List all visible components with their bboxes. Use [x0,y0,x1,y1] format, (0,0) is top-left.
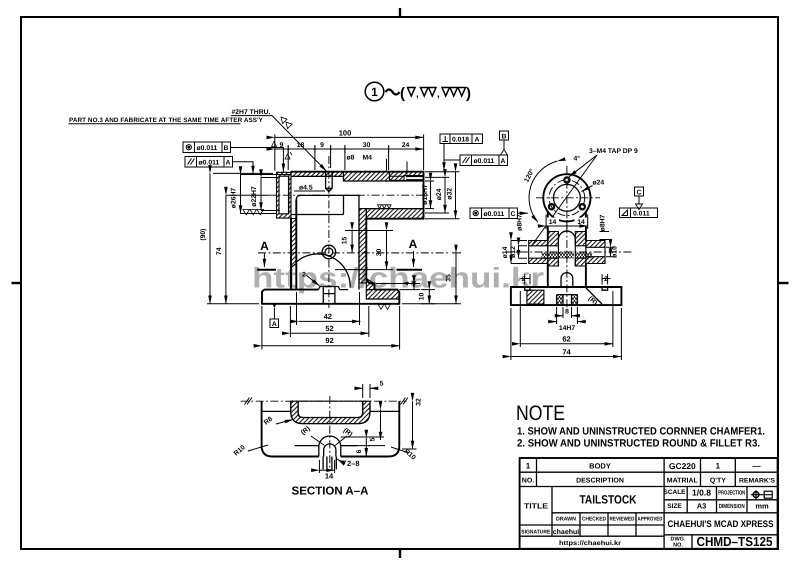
cap inner bore line [288,176,290,214]
svg-text:ø22H7: ø22H7 [251,186,258,207]
svg-text:DRAWN: DRAWN [556,517,576,523]
svg-text:chaehui: chaehui [553,528,580,536]
centerline circle horizontal [536,197,600,199]
svg-text:C: C [511,211,516,218]
svg-text:14: 14 [549,219,557,226]
cap piece left (part no.3) [277,172,292,218]
base right hatch [366,290,399,299]
svg-text:0.011: 0.011 [633,211,650,218]
svg-text:https://chaehui.kr: https://chaehui.kr [559,540,622,547]
drill hole 4.5 [326,172,333,192]
svg-text:ø18H7: ø18H7 [422,184,429,205]
title block [520,458,778,549]
thread zigzag right [575,253,592,259]
slot 14H7 [557,295,578,306]
svg-text:REVIEWED: REVIEWED [610,517,635,523]
right pin boss [586,241,605,264]
border tick top [399,8,401,17]
frame pos B [183,142,231,153]
svg-text:A3: A3 [697,502,707,511]
finish marks under cap [243,210,263,215]
dim o24 [444,177,446,213]
svg-text:NO.: NO. [522,478,535,485]
svg-text:(: ( [400,85,405,102]
svg-text:2. SHOW AND UNINSTRUCTED ROUND: 2. SHOW AND UNINSTRUCTED ROUND & FILLET … [517,438,760,450]
svg-text:4°: 4° [574,156,581,163]
svg-text:GC220: GC220 [669,461,696,471]
dim 30 [386,231,388,270]
svg-text:3–M4 TAP DP 9: 3–M4 TAP DP 9 [589,148,638,155]
border tick bottom [399,549,401,558]
svg-text:ø12: ø12 [510,246,517,258]
svg-text:ø24: ø24 [593,180,605,187]
dim 5 top [355,387,363,389]
dim o32 [455,172,457,219]
break marks [245,398,409,405]
svg-text:mm: mm [755,502,769,511]
cavity top fillet [296,195,359,289]
svg-text:35: 35 [446,274,453,282]
svg-text:C: C [637,189,642,196]
bar top thin wall hatch [291,172,344,177]
svg-text:1: 1 [716,462,721,471]
extension lines top [275,135,424,171]
svg-text:6: 6 [356,449,363,453]
column blocks hatched [548,232,559,267]
svg-text:14H7: 14H7 [559,325,575,332]
column right wall [366,219,374,290]
svg-text:74: 74 [216,247,223,255]
tap hole right [579,204,585,210]
dim 62 [520,343,613,345]
svg-text:30: 30 [363,142,371,149]
leader triangles [281,117,287,124]
tap hole left [548,204,554,210]
svg-text:M4: M4 [363,155,373,162]
svg-text:1: 1 [526,462,531,471]
svg-text:A: A [260,239,269,253]
svg-text:NOTE: NOTE [516,402,565,425]
column sides lower [548,264,586,288]
svg-text:PART NO.3 AND FABRICATE AT THE: PART NO.3 AND FABRICATE AT THE SAME TIME… [69,117,264,124]
svg-text:TITLE: TITLE [524,502,548,511]
svg-text:APPROVED: APPROVED [638,517,663,523]
dome center [319,436,341,457]
datum C flag [635,187,644,196]
datum A flag [273,304,277,308]
dim o26H7 [240,175,242,214]
circle o18H7 [554,184,581,211]
bar outline [291,172,424,219]
centerline vertical [566,166,568,312]
svg-text:—: — [753,462,761,471]
dim 10 [428,290,430,304]
svg-text:74: 74 [562,347,571,356]
svg-text:ø32: ø32 [446,188,453,200]
base boss [318,287,348,290]
dim o12 [518,246,520,258]
svg-text:(90): (90) [200,229,207,241]
svg-text:SECTION A–A: SECTION A–A [292,486,369,498]
dim (90) [209,173,211,303]
svg-text:52: 52 [325,324,333,333]
hole circle [322,245,336,259]
svg-text:SIGNATURE: SIGNATURE [521,530,550,536]
dim 14 14 [546,218,559,226]
column right wall hatch [359,209,366,283]
dim 8 [555,315,563,317]
base outline [262,290,399,304]
column sides below circle [548,212,586,241]
svg-text:5: 5 [370,437,377,441]
svg-text:1/0.8: 1/0.8 [692,488,711,498]
M4 tap hole right end [390,176,424,181]
svg-text:2: 2 [302,272,306,279]
svg-text:2–8: 2–8 [347,459,360,468]
border tick left [12,282,22,284]
svg-text:ø26H7: ø26H7 [231,188,238,209]
svg-text:DESCRIPTION: DESCRIPTION [576,478,624,485]
dim 74 [511,356,622,358]
column outer left wall [291,200,296,290]
svg-text:ø0.011: ø0.011 [197,145,218,152]
slot bottom arch [561,273,573,287]
web dome arc [296,254,350,288]
slot through [323,457,336,470]
dim 14 [319,469,334,471]
frame ang 0.011 right [620,208,658,218]
base steps [525,287,608,290]
centerline hole axis horizontal [258,252,448,254]
svg-text:): ) [466,85,471,102]
svg-text:NO.: NO. [673,543,683,549]
frame par A left [185,157,233,168]
svg-text:ø14: ø14 [502,246,509,258]
svg-text:PROJECTION: PROJECTION [718,490,745,497]
svg-text:14: 14 [577,219,585,226]
finish flag marks [272,142,277,147]
svg-text:SCALE: SCALE [663,489,686,496]
svg-text:CHECKED: CHECKED [582,517,606,523]
svg-text:8: 8 [565,309,569,316]
svg-text:ø24: ø24 [436,188,443,200]
thread zigzag left [542,253,559,259]
svg-text:Q'TY: Q'TY [710,478,726,485]
svg-text:DIMENSION: DIMENSION [719,503,745,510]
projection symbol [751,490,772,499]
centerline pin axis [505,251,634,253]
svg-text:A: A [475,137,480,144]
dim o18H7 [430,181,432,209]
dim 35 [455,253,457,304]
svg-text:24: 24 [402,142,410,149]
svg-text:ø8H7: ø8H7 [600,214,607,231]
svg-text:32: 32 [416,398,423,406]
svg-text:,: , [416,89,419,100]
svg-text:10: 10 [419,293,426,301]
svg-text:A: A [272,321,277,328]
base side view [511,287,622,305]
svg-text:62: 62 [562,335,570,344]
dim 92 [262,345,400,347]
dim 100 [275,136,424,138]
svg-text:CHMD–TS125: CHMD–TS125 [697,534,773,549]
dim 14H7 [548,321,557,323]
dim row2 ticks [275,148,424,150]
svg-text:42: 42 [324,312,332,321]
dim 4 [413,284,415,290]
120 arc [529,161,557,222]
dim 2 right [603,275,610,283]
svg-text:1: 1 [371,85,378,99]
slot dome [558,231,575,266]
svg-text:ø0.011: ø0.011 [484,211,505,218]
U channel hatched [291,401,370,423]
base diagonal R [586,288,602,304]
centerline horizontal [241,400,407,402]
bar bottom wall hatch [366,209,423,219]
datum B flag with par frame [500,131,509,140]
svg-text:BODY: BODY [589,462,611,471]
svg-text:B: B [224,145,229,152]
svg-text:14: 14 [325,472,334,481]
dim 15 [351,231,353,253]
svg-text:B: B [502,133,507,140]
svg-text:ø4.5: ø4.5 [299,185,313,192]
tap hole top [564,177,570,183]
dim o14 [510,241,512,264]
dim 2 left [521,275,528,283]
svg-text:MATRIAL: MATRIAL [667,478,699,485]
circle o32 [543,174,590,221]
svg-text:0.018: 0.018 [452,137,469,144]
finish triangles on bore [378,205,392,209]
base top edges [262,410,400,412]
svg-text:5: 5 [380,381,384,388]
bore step line [291,176,424,214]
dim 32 [412,401,414,449]
finish marks under base right [378,304,391,309]
svg-text:92: 92 [325,336,333,345]
dim 74 [225,195,227,304]
svg-text:ø0.011: ø0.011 [474,158,495,165]
svg-text:30: 30 [376,249,383,257]
label 2-8 [342,461,346,465]
svg-text:15: 15 [342,237,349,245]
svg-text:100: 100 [339,128,352,137]
dim 42 [299,320,361,322]
outer outline [262,401,400,456]
border tick right [778,282,789,284]
dim 5 right [380,410,382,441]
svg-text:REMARK'S: REMARK'S [739,478,776,485]
surface finish note top [365,82,471,102]
dim 6 [365,438,367,456]
column left wall hatch [291,219,296,268]
centerline vertical hole [328,156,330,308]
svg-text:CHAEHUI'S MCAD XPRESS: CHAEHUI'S MCAD XPRESS [668,519,774,530]
svg-text:#2H7 THRU.: #2H7 THRU. [232,109,271,116]
dim o22H7 [260,178,262,211]
svg-text:,: , [437,89,440,100]
base left hatch [527,290,544,304]
svg-text:TAILSTOCK: TAILSTOCK [580,493,637,507]
svg-text:SIZE: SIZE [667,503,682,510]
vertical centerline [329,396,331,470]
svg-text:9: 9 [320,142,324,149]
centerline bar axis [268,194,430,196]
svg-text:A: A [226,160,231,167]
svg-text:1. SHOW AND UNINSTRUCTED CORNN: 1. SHOW AND UNINSTRUCTED CORNNER CHAMFER… [517,426,765,438]
slot in base [323,287,335,304]
bar top thick wall hatch [344,172,424,181]
svg-text:A: A [501,158,506,165]
svg-text:ø0.011: ø0.011 [199,160,220,167]
frame pos C left [470,208,518,219]
svg-text:ø8: ø8 [347,155,355,162]
svg-text:A: A [409,237,418,251]
dim o10 [610,247,612,256]
dim 52 [290,332,368,334]
bolt circle o24 [549,180,585,216]
frame 0.018 A top right [440,134,483,144]
ledge hatch [366,279,374,290]
centerline slot plane [257,269,422,271]
left pin boss [529,241,548,264]
